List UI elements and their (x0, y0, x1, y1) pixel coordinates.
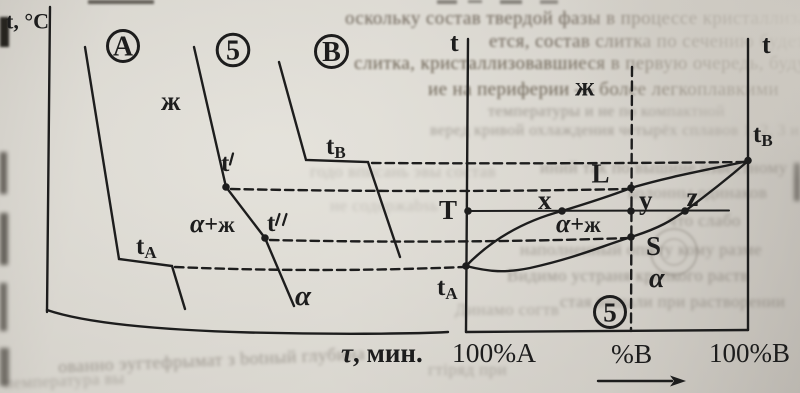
dashed transfer line at t_A level (175, 267, 464, 270)
node t'' on cooling curve 5 (261, 234, 269, 242)
svg-text:100%A: 100%A (452, 337, 536, 368)
svg-text:ж: ж (161, 86, 181, 116)
dashed vertical line of alloy composition %B (631, 67, 632, 331)
svg-text:t, °C: t, °C (6, 9, 49, 34)
svg-text:α+ж: α+ж (190, 209, 235, 238)
svg-text:T: T (439, 195, 457, 225)
svg-text:t: t (267, 210, 276, 237)
svg-text:tB: tB (326, 133, 346, 162)
svg-text:100%B: 100%B (709, 338, 790, 368)
composition direction arrowhead (670, 376, 686, 387)
svg-text:tB: tB (753, 121, 773, 150)
node t_A on left axis (462, 262, 470, 270)
node t' on cooling curve 5 (222, 183, 230, 191)
svg-text:t: t (221, 150, 230, 177)
time axis τ (left diagram, curved by page warp) (47, 310, 448, 334)
node S on solidus at composition %B (627, 233, 635, 241)
svg-text:ж: ж (575, 72, 595, 102)
svg-text:5: 5 (603, 298, 617, 328)
cooling curve A (pure metal A) with plateau at t_A (85, 47, 185, 309)
node L on liquidus at composition %B (627, 184, 635, 192)
dashed transfer line at t_B level (372, 162, 746, 163)
svg-text:τ, мин.: τ, мин. (341, 338, 423, 368)
svg-text:x: x (538, 185, 552, 215)
svg-text:S: S (646, 231, 661, 261)
left ordinate axis t (phase diagram, 100%A) (466, 39, 468, 332)
node y at composition line and tie line (627, 207, 635, 215)
svg-text:B: B (322, 37, 341, 68)
right ordinate axis t (phase diagram, 100%B) (747, 39, 749, 330)
svg-text:tA: tA (136, 233, 157, 262)
abscissa axis %B (phase diagram) (466, 330, 748, 332)
circle of curve label 5 (217, 34, 249, 66)
temperature axis t,°C (left cooling-curve diagram) (47, 7, 50, 312)
composition direction arrow shaft (598, 380, 672, 382)
faint stamp rings (650, 228, 698, 276)
prime mark of label t' (230, 154, 233, 165)
cooling curve 5 (alloy) with breaks at t' and t'' (194, 47, 294, 306)
svg-text:α: α (295, 280, 312, 312)
node t_B on right axis (744, 157, 752, 165)
svg-text:L: L (592, 159, 610, 189)
background bleed-through text (345, 8, 800, 30)
circle of curve label B (316, 36, 348, 68)
svg-text:t: t (450, 28, 459, 57)
dashed transfer line at t'' level to point S (270, 238, 629, 242)
svg-text:α: α (649, 263, 665, 294)
svg-text:y: y (639, 185, 653, 215)
svg-text:z: z (687, 182, 699, 212)
solidus curve t_A–S–z–t_B (466, 161, 748, 271)
cooling curve B (pure metal B) with plateau at t_B (279, 62, 400, 257)
svg-text:5: 5 (226, 36, 240, 67)
svg-text:A: A (113, 32, 134, 63)
node z on solidus (681, 207, 689, 215)
node x on liquidus (558, 207, 566, 215)
dashed transfer line at t' level to point L (231, 189, 629, 191)
svg-text:α+ж: α+ж (556, 209, 601, 238)
svg-text:t: t (762, 30, 771, 59)
double prime marks of label t'' (276, 214, 280, 225)
tie line (conode) T–x–y–z (468, 210, 729, 213)
circle of alloy label 5 (phase diagram) (595, 297, 626, 328)
circle of curve label A (108, 31, 139, 62)
node T on left axis of tie line (464, 207, 472, 215)
liquidus curve t_A–x–L–t_B (466, 161, 748, 266)
left edge dark marks (0, 17, 9, 47)
svg-text:tA: tA (437, 274, 458, 303)
svg-text:%B: %B (611, 338, 652, 369)
